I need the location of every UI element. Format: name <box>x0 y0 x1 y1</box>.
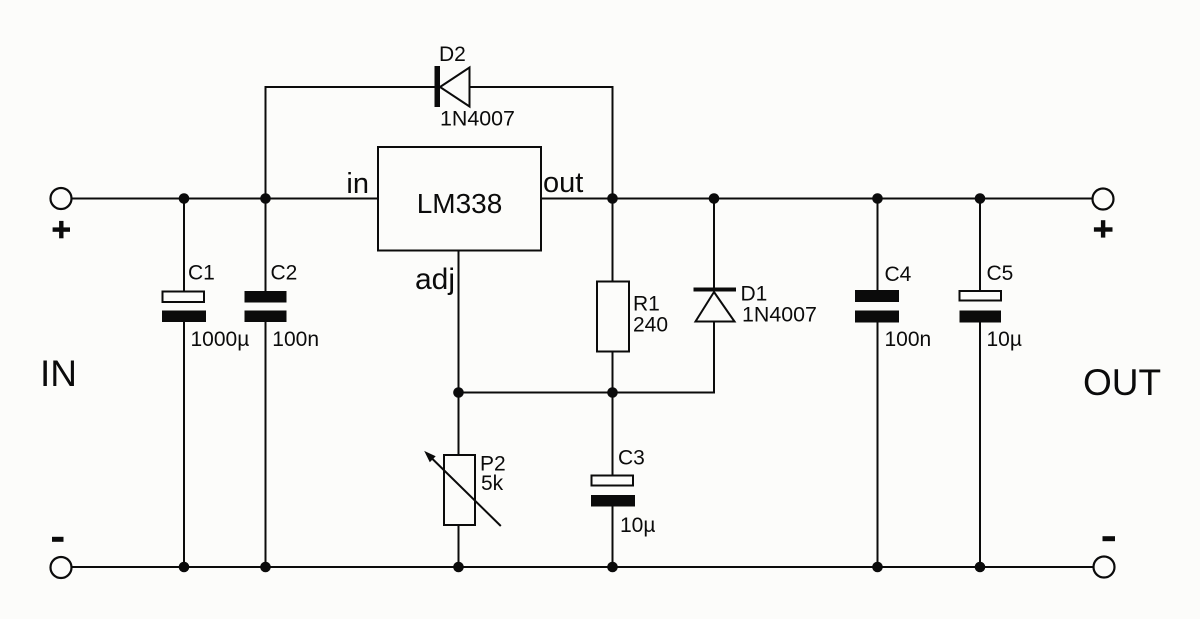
node junction C3 bottom <box>607 562 618 573</box>
node junction adj-R1-C3 <box>607 387 618 398</box>
wire C5 bottom lead <box>979 322 981 567</box>
wire C1 top lead <box>183 199 185 293</box>
svg-text:out: out <box>543 167 583 199</box>
node junction C4 bottom <box>872 562 883 573</box>
polarity minus IN <box>52 537 64 542</box>
wire R1 top lead <box>612 199 614 283</box>
wire bottom rail <box>72 566 1094 568</box>
capacitor C2 <box>245 291 287 322</box>
node junction P2 bottom <box>453 562 464 573</box>
wire adj row horizontal <box>459 392 715 394</box>
node junction C2 top <box>260 193 271 204</box>
svg-text:100n: 100n <box>885 328 932 351</box>
svg-text:OUT: OUT <box>1083 362 1161 403</box>
potentiometer P2 <box>424 451 501 526</box>
svg-text:C4: C4 <box>885 263 912 286</box>
terminal IN + circle <box>51 188 72 209</box>
node junction C2 bottom <box>260 562 271 573</box>
wire D2 left horizontal <box>265 86 436 88</box>
op-amp U1 LM338 regulator box <box>378 147 541 251</box>
wire D2 right horizontal <box>470 86 613 88</box>
wire top rail left <box>72 198 379 200</box>
svg-text:5k: 5k <box>481 472 504 495</box>
wire C3 bottom lead <box>612 505 614 567</box>
polarity minus OUT <box>1103 536 1116 541</box>
svg-text:IN: IN <box>40 353 77 394</box>
terminal OUT + circle <box>1093 189 1114 210</box>
node junction out <box>607 193 618 204</box>
svg-text:240: 240 <box>633 314 668 337</box>
polarity plus OUT <box>1094 220 1113 237</box>
svg-text:100n: 100n <box>272 328 319 351</box>
svg-text:C3: C3 <box>618 447 645 470</box>
wire adj stub <box>458 251 460 393</box>
capacitor C5 <box>960 291 1002 323</box>
svg-text:1N4007: 1N4007 <box>742 303 817 327</box>
svg-text:C1: C1 <box>188 262 215 285</box>
svg-text:LM338: LM338 <box>417 188 503 219</box>
svg-text:D2: D2 <box>439 43 466 66</box>
svg-text:R1: R1 <box>633 293 660 316</box>
svg-text:C2: C2 <box>271 262 298 285</box>
capacitor C1 <box>162 292 206 323</box>
polarity plus IN <box>53 221 70 238</box>
wire P2 top lead <box>458 393 460 457</box>
node junction C5 top <box>975 193 986 204</box>
resistor R1 <box>597 282 629 352</box>
wire C2 top lead <box>265 199 267 293</box>
wire R1 bottom lead <box>612 351 614 393</box>
svg-text:in: in <box>346 168 369 200</box>
capacitor C3 <box>591 476 635 507</box>
wire C4 bottom lead <box>877 322 879 567</box>
wire top rail right <box>541 198 1093 200</box>
diode D1 <box>694 288 737 322</box>
wire D2 left riser <box>265 86 267 199</box>
node junction C4 top <box>872 193 883 204</box>
node junction C1 bottom <box>179 562 190 573</box>
terminal IN - circle <box>51 557 72 578</box>
capacitor C4 <box>855 290 899 323</box>
svg-text:C5: C5 <box>987 262 1014 285</box>
svg-text:adj: adj <box>415 263 455 296</box>
wire C2 bottom lead <box>265 321 267 567</box>
wire D1 bottom lead <box>713 321 715 394</box>
svg-text:1000µ: 1000µ <box>191 328 250 351</box>
wire D1 top lead <box>713 199 715 290</box>
wire C3 top lead <box>612 393 614 477</box>
node junction D1 top <box>709 193 720 204</box>
node junction C5 bottom <box>975 562 986 573</box>
svg-text:10µ: 10µ <box>987 328 1022 351</box>
wire C1 bottom lead <box>183 321 185 567</box>
diode D2 <box>435 66 470 107</box>
wire D2 right riser <box>612 86 614 199</box>
wire C4 top lead <box>877 199 879 292</box>
node junction adj-P2 <box>453 387 464 398</box>
wire C5 top lead <box>979 199 981 293</box>
wire P2 bottom lead <box>458 525 460 568</box>
svg-text:10µ: 10µ <box>620 514 655 537</box>
svg-text:1N4007: 1N4007 <box>440 107 515 131</box>
node junction C1 top <box>179 193 190 204</box>
terminal OUT - circle <box>1094 557 1115 578</box>
